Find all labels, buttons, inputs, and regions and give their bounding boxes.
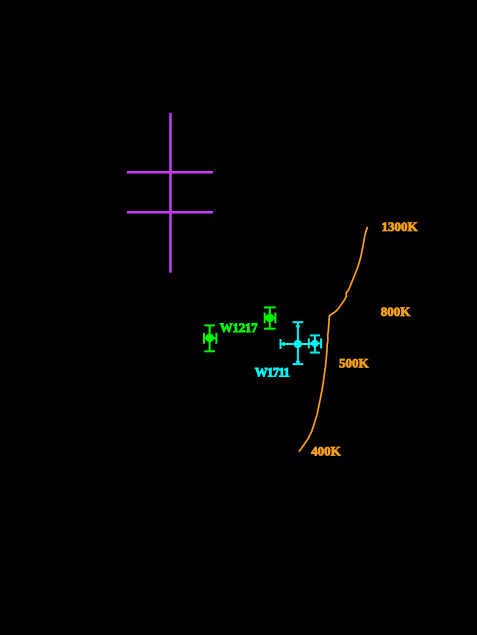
cyan data point 1 (W1711 large) — [281, 322, 315, 364]
svg-text:400K: 400K — [311, 443, 342, 458]
magenta error bar cross (vertical line) — [169, 113, 172, 273]
magenta error bar cross (lower horizontal line) — [127, 211, 213, 214]
svg-text:W1217: W1217 — [220, 320, 258, 335]
svg-text:500K: 500K — [339, 356, 370, 371]
svg-text:1300K: 1300K — [382, 219, 419, 234]
orange model curve — [299, 227, 368, 452]
svg-text:800K: 800K — [381, 304, 412, 319]
green data point 2 (W1217 right) — [264, 307, 276, 328]
magenta error bar cross (upper horizontal line) — [127, 171, 213, 174]
cyan data point 2 (W1711 small) — [309, 335, 321, 352]
svg-text:W1711: W1711 — [255, 364, 290, 379]
green data point 1 (W1217 left) — [204, 325, 216, 351]
